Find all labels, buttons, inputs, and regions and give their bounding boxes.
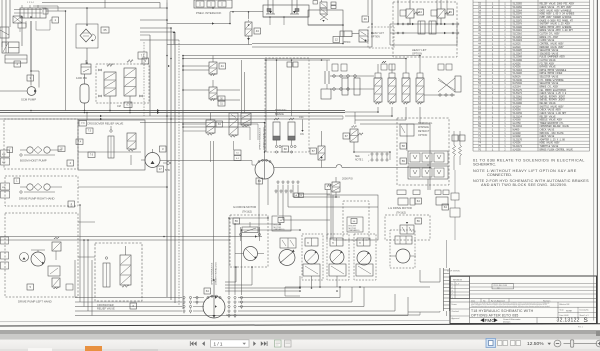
svg-text:67: 67 bbox=[345, 134, 349, 138]
svg-text:OPTION: OPTION bbox=[412, 52, 422, 56]
svg-text:OPTION: OPTION bbox=[418, 134, 427, 137]
taskbar icon gray bbox=[130, 349, 158, 351]
label BR bbox=[325, 184, 331, 190]
reducing valve 44 bbox=[400, 0, 419, 24]
text LH DRIVE MOTOR bbox=[388, 206, 412, 215]
box crossover relief valve upper bbox=[78, 120, 145, 170]
zoom slider bbox=[564, 340, 598, 347]
svg-text:44: 44 bbox=[419, 10, 423, 14]
title text bbox=[470, 307, 597, 317]
valve V57 bbox=[318, 131, 325, 168]
text UPPER LOWER HYDRAULICS lower swivel bbox=[211, 262, 218, 285]
swivel lower extra ports bbox=[196, 296, 198, 304]
svg-text:7.6: 7.6 bbox=[90, 155, 94, 157]
text HEAVY LIFT OPTION bbox=[412, 48, 427, 56]
svg-text:64: 64 bbox=[444, 205, 448, 209]
svg-text:Date 4-6-88: Date 4-6-88 bbox=[560, 314, 569, 317]
label 3 bbox=[160, 146, 167, 152]
svg-text:PG. 1: PG. 1 bbox=[578, 327, 583, 329]
text SCM PUMP bbox=[21, 98, 36, 102]
svg-text:17: 17 bbox=[159, 167, 163, 171]
motor variable circle bbox=[279, 244, 295, 266]
svg-text:1 / 1: 1 / 1 bbox=[214, 341, 223, 346]
hose ladder bbox=[444, 268, 450, 311]
zoom in button cut at edge bbox=[596, 340, 600, 347]
svg-text:(VARIABLE): (VARIABLE) bbox=[349, 229, 360, 232]
dashed box drive pump left hand bbox=[5, 213, 78, 297]
svg-text:20: 20 bbox=[60, 149, 63, 151]
svg-text:W/SPADE: W/SPADE bbox=[418, 126, 429, 129]
svg-text:3: 3 bbox=[162, 147, 164, 151]
title block frame bbox=[450, 276, 597, 324]
svg-text:3: 3 bbox=[452, 291, 454, 293]
accumulator A1 bbox=[80, 74, 89, 111]
svg-text:CROSSOVER RELIEF VALVE: CROSSOVER RELIEF VALVE bbox=[87, 122, 124, 126]
swivel joint lower bbox=[203, 280, 225, 318]
svg-text:No: No bbox=[483, 300, 485, 302]
svg-text:4: 4 bbox=[69, 161, 71, 165]
svg-text:5: 5 bbox=[144, 59, 146, 63]
text PPWC bbox=[343, 41, 351, 44]
svg-text:58: 58 bbox=[402, 144, 406, 148]
svg-text:L.H DRIVE MOTOR: L.H DRIVE MOTOR bbox=[388, 206, 412, 210]
notes text bbox=[473, 159, 589, 188]
svg-text:1200 PSI: 1200 PSI bbox=[76, 76, 87, 80]
check valves left of bank bbox=[330, 64, 374, 90]
wire charge pump to swivel bbox=[160, 161, 256, 166]
svg-text:32 4F SWIVEL: 32 4F SWIVEL bbox=[447, 271, 461, 273]
svg-text:H: H bbox=[332, 242, 334, 245]
svg-text:HEAVY LIFT: HEAVY LIFT bbox=[371, 32, 385, 35]
wire parking feed bbox=[249, 25, 331, 152]
wire bbox=[140, 19, 179, 40]
zoom percentage text bbox=[527, 341, 551, 347]
label 2 bbox=[14, 61, 21, 67]
svg-text:63: 63 bbox=[258, 179, 262, 183]
svg-text:OPTIONS AFTER 81TO 085: OPTIONS AFTER 81TO 085 bbox=[471, 313, 519, 317]
svg-text:T18 HYDRAULIC SCHEMATIC WITH: T18 HYDRAULIC SCHEMATIC WITH bbox=[471, 309, 534, 313]
svg-text:RETRACT: RETRACT bbox=[418, 130, 430, 133]
wire main bus bbox=[0, 109, 345, 114]
svg-text:MR: MR bbox=[2, 154, 6, 156]
valve bank spool 3 bbox=[402, 59, 410, 105]
wire right risers bbox=[420, 190, 440, 282]
label 17 5PSI bbox=[157, 166, 170, 172]
swivel upper ports row bbox=[275, 181, 299, 193]
right chain label boxes bbox=[452, 135, 465, 141]
label 45 bbox=[447, 9, 454, 15]
label 64c bbox=[204, 288, 211, 294]
logo FMC bbox=[470, 318, 559, 324]
small boxes parking top bbox=[287, 62, 298, 67]
text BOOM HOIST PUMP bbox=[20, 159, 47, 163]
svg-text:6.7: 6.7 bbox=[126, 104, 130, 107]
svg-text:7.4: 7.4 bbox=[78, 142, 82, 144]
svg-text:8J4299: 8J4299 bbox=[513, 148, 522, 151]
text SEE NOTE 1 bbox=[355, 156, 364, 162]
label 63c bbox=[216, 121, 223, 127]
dashed box third dual option bbox=[397, 118, 449, 185]
wire bbox=[167, 11, 343, 45]
svg-text:H: H bbox=[307, 242, 309, 245]
pump drive right bbox=[20, 184, 62, 194]
svg-text:X: X bbox=[368, 155, 370, 157]
svg-text:55: 55 bbox=[280, 220, 283, 222]
svg-text:H: H bbox=[359, 242, 361, 245]
drawing border right bbox=[594, 0, 598, 324]
svg-text:45: 45 bbox=[449, 10, 453, 14]
revision mini table bbox=[451, 277, 470, 300]
svg-text:FMC: FMC bbox=[485, 318, 496, 323]
relief valve V5b bbox=[124, 60, 143, 111]
svg-text:Date: Date bbox=[471, 299, 475, 302]
label 7.6 bbox=[88, 152, 95, 158]
label 7.5 bbox=[138, 52, 147, 59]
pump drive left small bbox=[20, 253, 29, 262]
label 56b bbox=[415, 218, 422, 224]
wire motor feeds left bbox=[225, 276, 312, 292]
label 67 bbox=[343, 133, 350, 139]
svg-text:64: 64 bbox=[417, 199, 421, 203]
svg-text:BRASS FLUSH CONTROL VALVE: BRASS FLUSH CONTROL VALVE bbox=[540, 148, 574, 151]
svg-text:Y: Y bbox=[368, 161, 370, 163]
svg-text:LOWER HYDRAULICS: LOWER HYDRAULICS bbox=[263, 127, 266, 150]
label 44 bbox=[417, 9, 424, 15]
svg-text:4: 4 bbox=[452, 287, 454, 289]
page note bbox=[578, 327, 583, 329]
toolbar next-page button bbox=[253, 341, 256, 346]
label A B bbox=[294, 193, 304, 198]
voltage module 1 bbox=[408, 151, 448, 164]
left signature column bbox=[451, 302, 470, 324]
svg-text:A: A bbox=[296, 194, 298, 197]
wire bbox=[42, 0, 167, 8]
brake cylinders box bbox=[263, 0, 309, 18]
cylinder C2 bbox=[2, 42, 27, 63]
svg-text:RELIEF VALVE: RELIEF VALVE bbox=[97, 307, 115, 311]
valve bank spool 2 bbox=[388, 64, 396, 104]
parts list table grid bbox=[473, 0, 590, 151]
wire dashed x144 bbox=[143, 42, 145, 116]
swivel joint upper bbox=[255, 152, 274, 179]
parts list table text bbox=[478, 3, 575, 152]
svg-text:1 2 3 4: 1 2 3 4 bbox=[27, 2, 34, 4]
wire left margin bbox=[2, 0, 3, 47]
svg-text:THIRD/DUAL: THIRD/DUAL bbox=[418, 122, 433, 125]
wire parking brake feeds bbox=[276, 59, 293, 116]
right chain coils bbox=[453, 131, 462, 170]
text PNEU INTERLOCK bbox=[196, 11, 221, 15]
wire bank bottom staircase bbox=[345, 107, 430, 190]
pilot boxes W bbox=[381, 61, 395, 70]
relief cartridge bbox=[108, 126, 114, 158]
toolbar first-page button bbox=[190, 341, 196, 346]
wire staircase to ladder bbox=[226, 311, 440, 315]
text DRIVE PUMP LEFT HAND bbox=[18, 300, 52, 304]
svg-text:56: 56 bbox=[417, 219, 421, 223]
wire bbox=[6, 0, 31, 86]
svg-text:57: 57 bbox=[312, 149, 316, 153]
dashed box option 5 bbox=[96, 64, 149, 103]
wire brake box drop bbox=[263, 17, 308, 25]
svg-text:PPWC: PPWC bbox=[343, 41, 351, 44]
svg-text:G4 DRIVE MOTOR: G4 DRIVE MOTOR bbox=[233, 205, 256, 209]
small box in pump box bbox=[66, 284, 73, 290]
svg-text:43: 43 bbox=[256, 29, 260, 33]
svg-text:OPTION: OPTION bbox=[371, 37, 380, 39]
svg-text:OFF: OFF bbox=[299, 116, 304, 119]
svg-text:12: 12 bbox=[335, 38, 339, 42]
component at left edge bbox=[0, 27, 9, 38]
relief in pump box bbox=[48, 266, 60, 289]
svg-text:Drawing No.: Drawing No. bbox=[580, 309, 590, 312]
label 7.5 bbox=[86, 128, 93, 134]
brake ports bbox=[275, 145, 296, 153]
svg-text:1: 1 bbox=[54, 18, 56, 22]
valve V61 solenoid bbox=[229, 113, 238, 150]
svg-text:65: 65 bbox=[103, 28, 107, 32]
wire top edge stubs bbox=[105, 0, 447, 24]
reducing valve 45 bbox=[431, 0, 450, 24]
G4 brake mechanism bbox=[239, 222, 260, 241]
label 7 bbox=[7, 147, 13, 153]
text above title block bbox=[447, 271, 461, 273]
svg-text:CONNECTED.: CONNECTED. bbox=[487, 173, 512, 177]
svg-text:7.3: 7.3 bbox=[81, 122, 85, 125]
swing motor D bbox=[390, 230, 416, 268]
svg-text:Scale: Scale bbox=[560, 310, 564, 312]
zoom out button bbox=[554, 340, 561, 347]
dashed box LH drive motor bbox=[385, 215, 430, 240]
label 20 bbox=[58, 146, 65, 152]
svg-text:7.5: 7.5 bbox=[141, 54, 145, 57]
svg-text:5: 5 bbox=[29, 285, 31, 289]
scrollbar corner mark bbox=[596, 331, 600, 336]
svg-text:59: 59 bbox=[402, 159, 406, 163]
check pair boxes right 2 bbox=[435, 190, 449, 205]
crossing lines right of bank bbox=[424, 64, 461, 96]
svg-text:DRIVE PUMP LEFT HAND: DRIVE PUMP LEFT HAND bbox=[18, 300, 52, 304]
pump P3 SCM bbox=[0, 21, 39, 95]
wire option bbox=[407, 136, 428, 190]
left edge boxes 2 bbox=[1, 183, 10, 198]
cylinder pair heavy lift bbox=[418, 21, 436, 34]
svg-text:NOTE 1: NOTE 1 bbox=[355, 160, 364, 162]
motor G4 circle bbox=[235, 247, 264, 261]
svg-text:6.1: 6.1 bbox=[236, 158, 240, 160]
text PARKING BRAKE bbox=[275, 108, 286, 116]
label 46 bbox=[362, 16, 369, 22]
svg-text:Crane & Excavator: Crane & Excavator bbox=[503, 318, 521, 321]
toolbar snapshot icon bbox=[275, 340, 282, 347]
brake cylinder left bbox=[273, 118, 280, 145]
view mode button 2 bbox=[498, 341, 508, 346]
wire G4 bottom bbox=[225, 267, 268, 285]
valve assembly V1 extra detail bbox=[14, 9, 48, 21]
right chain small boxes bbox=[450, 170, 460, 240]
svg-text:SCHEMATIC.: SCHEMATIC. bbox=[473, 163, 496, 167]
drawing number bbox=[537, 317, 588, 324]
svg-text:64: 64 bbox=[206, 289, 210, 293]
capacitor symbol bbox=[321, 60, 331, 99]
valve assembly V1 (swing control) bbox=[13, 2, 66, 110]
svg-text:By Ch Approved: By Ch Approved bbox=[491, 299, 505, 302]
label 7.3 bbox=[79, 121, 87, 127]
wire staircase bottom bbox=[203, 276, 430, 316]
svg-text:REVISION: REVISION bbox=[453, 280, 463, 282]
toolbar last-page button bbox=[261, 341, 267, 346]
svg-text:UPPER HYDRAULICS: UPPER HYDRAULICS bbox=[259, 127, 262, 150]
wire left feeders bbox=[75, 205, 92, 316]
toolbar prev-page button bbox=[202, 341, 205, 346]
swivel right ports bbox=[228, 296, 236, 317]
label 3 bbox=[27, 75, 34, 81]
brake cylinder right bbox=[288, 118, 295, 145]
svg-text:4: 4 bbox=[70, 202, 72, 206]
svg-text:AND ANTI TWO BLOCK SEE DWG. 38: AND ANTI TWO BLOCK SEE DWG. 38J2590. bbox=[481, 183, 568, 187]
label 43 bbox=[254, 28, 261, 34]
wire heavy-lift rows bbox=[390, 23, 459, 35]
revision history rules bbox=[451, 284, 597, 299]
svg-text:HEAVY LIFT: HEAVY LIFT bbox=[412, 48, 427, 52]
taskbar icon white bbox=[28, 348, 52, 351]
thin cylinders left of bank bbox=[342, 78, 360, 95]
valve column x242 bbox=[241, 60, 251, 127]
voltage module 2 bbox=[408, 166, 448, 179]
label 5 bbox=[142, 58, 149, 64]
text 1200 PSI bbox=[76, 76, 87, 80]
svg-text:Division: Division bbox=[503, 321, 511, 323]
text THIRD DUAL OPTION bbox=[418, 122, 433, 137]
svg-text:2: 2 bbox=[16, 62, 18, 66]
view mode button active bbox=[486, 339, 496, 348]
svg-text:(VARIABLE): (VARIABLE) bbox=[274, 228, 285, 231]
valve in pump box bbox=[52, 237, 61, 260]
valve 2000psi bbox=[327, 177, 340, 197]
valve V50 bbox=[183, 80, 240, 101]
label T bbox=[14, 178, 20, 184]
charge pump circle bbox=[141, 149, 160, 168]
valve V43 flood bbox=[245, 11, 252, 45]
wire swivel right feeders bbox=[229, 218, 300, 295]
label 57 bbox=[310, 148, 317, 154]
valve under label bbox=[280, 238, 296, 248]
wire swivel left runs bbox=[75, 298, 204, 316]
label 6 bbox=[130, 303, 137, 309]
label box hydfit motor variable bbox=[272, 216, 291, 231]
svg-text:L.T: L.T bbox=[457, 284, 461, 286]
svg-text:PNEU. INTERLOCK: PNEU. INTERLOCK bbox=[196, 11, 221, 15]
drawing border bottom bbox=[0, 321, 600, 326]
label 60 bbox=[282, 146, 289, 152]
relief valve V5a bbox=[99, 64, 117, 111]
svg-text:6: 6 bbox=[132, 304, 134, 308]
master cylinder PPWC bbox=[340, 30, 368, 42]
label 64b bbox=[442, 204, 449, 210]
wire arrows bbox=[100, 65, 257, 308]
wire bbox=[390, 24, 457, 45]
legal text bbox=[471, 302, 550, 308]
label 12 bbox=[333, 37, 340, 43]
svg-text:60: 60 bbox=[284, 147, 288, 151]
text 2000 PSI bbox=[342, 177, 353, 181]
svg-text:BOOM HOIST PUMP: BOOM HOIST PUMP bbox=[20, 159, 47, 163]
valve bank spool 4 bbox=[416, 56, 424, 105]
svg-text:1-6: 1-6 bbox=[497, 288, 500, 290]
svg-text:32.13122: 32.13122 bbox=[557, 318, 580, 324]
svg-text:2000 PSI: 2000 PSI bbox=[342, 177, 353, 181]
svg-text:56: 56 bbox=[235, 219, 239, 223]
box in option bbox=[400, 124, 414, 136]
svg-text:MR: MR bbox=[2, 187, 6, 189]
motor group B bbox=[327, 234, 349, 280]
text OFF ON bbox=[299, 116, 304, 136]
relief spool lower bbox=[120, 246, 131, 287]
valve V41 bbox=[182, 56, 217, 76]
label 63 bbox=[256, 178, 263, 184]
dashed box parking brake bbox=[265, 58, 309, 152]
label 64a bbox=[415, 198, 422, 204]
svg-text:CM: CM bbox=[117, 105, 121, 108]
valve cluster top-center bbox=[313, 1, 336, 22]
svg-text:12.50%: 12.50% bbox=[527, 341, 544, 347]
svg-text:Drawn: Drawn bbox=[452, 304, 457, 306]
label box hydfit motor 2 bbox=[347, 217, 363, 232]
pump boom hoist bbox=[20, 147, 62, 157]
text CROSSOVER RELIEF VALVE lower bbox=[97, 303, 115, 311]
svg-text:B: B bbox=[301, 195, 303, 197]
label 59 bbox=[400, 158, 407, 164]
label 56 bbox=[233, 218, 240, 224]
text G4 DRIVE MOTOR bbox=[233, 205, 256, 214]
text DRIVE PUMP RIGHT HAND bbox=[19, 197, 54, 201]
wire top-left stubs bbox=[26, 20, 52, 30]
svg-text:7.5: 7.5 bbox=[88, 131, 92, 133]
valve bank spool 1 bbox=[374, 64, 382, 104]
test port stems bbox=[372, 155, 387, 159]
cartridge lower bbox=[103, 257, 110, 287]
text UPPER LOWER HYDRAULICS upper swivel bbox=[259, 127, 266, 150]
svg-text:1: 1 bbox=[16, 180, 18, 183]
wire pilot dashed bbox=[178, 40, 180, 306]
svg-text:MR: MR bbox=[2, 162, 6, 164]
dashed box G4 motor bbox=[230, 215, 268, 267]
scale cells bbox=[558, 302, 597, 318]
svg-text:NONE: NONE bbox=[566, 310, 572, 312]
svg-text:2: 2 bbox=[452, 294, 454, 296]
svg-text:61: 61 bbox=[236, 152, 239, 154]
svg-text:Checked: Checked bbox=[452, 311, 459, 313]
prod rel note bbox=[492, 284, 514, 290]
svg-text:UPPER HYDRAULICS: UPPER HYDRAULICS bbox=[211, 262, 214, 285]
label 41 bbox=[219, 63, 226, 69]
box crossover relief valve lower bbox=[95, 243, 142, 301]
filter F65 bbox=[76, 7, 98, 63]
motor group C bbox=[354, 234, 376, 280]
svg-text:DRIVE PUMP RIGHT HAND: DRIVE PUMP RIGHT HAND bbox=[19, 197, 54, 201]
svg-text:5PSI: 5PSI bbox=[165, 170, 170, 172]
left edge boxes MR bbox=[1, 150, 10, 165]
svg-text:ON: ON bbox=[300, 133, 304, 136]
svg-text:63: 63 bbox=[218, 122, 222, 126]
wire aux bus bbox=[0, 113, 343, 123]
revision header row bbox=[451, 277, 597, 303]
wire ports down bbox=[259, 179, 378, 236]
svg-text:Approved: Approved bbox=[452, 317, 460, 320]
box RH motor outer bbox=[327, 190, 378, 240]
label 61 6.1 bbox=[234, 150, 241, 161]
wire pump-area links bbox=[0, 152, 262, 257]
